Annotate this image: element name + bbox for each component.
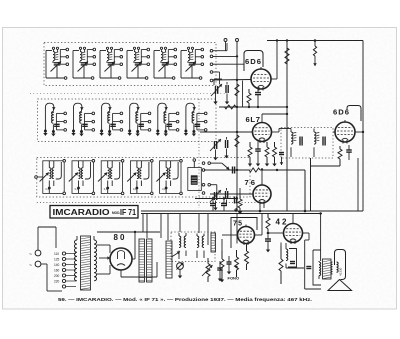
oscillator coil cell B6	[184, 103, 207, 136]
antenna arrow	[314, 41, 316, 47]
tube 76	[253, 185, 271, 203]
6L7 R3	[274, 142, 276, 147]
right frame wire	[357, 158, 359, 211]
tube 6L7	[253, 123, 272, 142]
IF coil cell C1	[40, 160, 66, 195]
76 cathode leads	[259, 204, 261, 212]
oscillator coil cell B1	[43, 103, 66, 136]
6L7 R2	[266, 142, 268, 147]
terminal strip pins	[210, 43, 244, 84]
svg-text:59. — IMCARADIO. — Mod. «: 59. — IMCARADIO. — Mod. « IF 71 ». — Pro…	[58, 297, 312, 302]
chassis line lower	[141, 213, 322, 215]
speaker cone	[328, 280, 352, 291]
svg-text:IF 71: IF 71	[120, 208, 137, 217]
phono transformer (dashed box)	[171, 232, 215, 262]
6L7 C1	[255, 148, 261, 150]
oscillator coil cell B4	[128, 103, 151, 136]
heater wire	[121, 276, 157, 278]
screen resistor h	[225, 105, 237, 109]
phono pickup arrow	[172, 252, 181, 258]
antenna coil cell A5	[154, 47, 177, 79]
6L7 plate wire	[272, 131, 280, 133]
trimmer group 1	[211, 79, 229, 104]
76 grid wire	[210, 193, 253, 195]
80 anode wires	[97, 244, 110, 246]
speaker yoke	[335, 250, 346, 280]
bus resistor 1	[235, 84, 239, 96]
antenna coil cell A6	[181, 47, 204, 79]
phono jack	[177, 263, 184, 270]
6D6b grid wire	[333, 131, 335, 133]
svg-text:140: 140	[54, 263, 60, 267]
antenna coil cell A2	[73, 47, 96, 79]
svg-text:~: ~	[29, 263, 32, 269]
svg-text:125: 125	[54, 257, 60, 261]
tube 6D6a	[251, 69, 271, 89]
row3 dashed box	[37, 158, 250, 198]
chassis line upper	[141, 210, 363, 212]
rectifier tube 80	[110, 248, 132, 270]
logo box	[50, 206, 138, 219]
42 plate drop	[308, 233, 310, 240]
bus wire v237	[236, 42, 238, 212]
42 cathode coil	[286, 249, 288, 261]
svg-text:~: ~	[29, 252, 32, 258]
mid drop wires	[198, 214, 200, 234]
42 bottom wire	[286, 267, 304, 269]
6D6b cathode cap	[346, 149, 352, 151]
svg-text:200: 200	[54, 274, 60, 278]
tube box 6D6a	[244, 51, 263, 72]
bypass cap D1	[210, 203, 216, 205]
42 grid resistor	[280, 246, 282, 259]
6D6a cathode cap	[255, 92, 261, 94]
6L7 grid wire	[200, 131, 253, 133]
oscillator coil cell B5	[156, 103, 179, 136]
oscillator coil cell B3	[99, 103, 122, 136]
volume pot	[207, 258, 209, 264]
speaker loop	[313, 250, 321, 285]
6L7 bottom resistor h	[204, 169, 249, 171]
antenna coil cell A1	[46, 47, 69, 79]
plug wires	[37, 227, 39, 250]
bus bypass cap	[234, 197, 236, 204]
fono cap	[217, 267, 223, 269]
label 75 box	[231, 218, 257, 249]
power transformer T1	[74, 236, 96, 290]
output transformer core	[323, 259, 332, 279]
42 cathode loop	[288, 249, 297, 268]
IF coil cell C4	[127, 160, 153, 195]
antenna coil cell A4	[127, 47, 150, 79]
speaker feed wires	[304, 240, 306, 289]
75 mid resistor	[236, 250, 238, 257]
filter can 1	[139, 239, 145, 282]
trimmer group 3	[210, 188, 228, 210]
mid small cap	[227, 261, 232, 263]
svg-text:75: 75	[233, 221, 242, 228]
42 cathode cap	[290, 261, 295, 263]
IF coil cell C6	[188, 159, 230, 195]
76 grid resistor	[239, 197, 241, 199]
svg-text:42: 42	[276, 218, 288, 227]
top bus wire	[267, 40, 363, 42]
psu arrow	[99, 257, 110, 259]
extra dotted row	[30, 93, 225, 95]
75 input can	[211, 233, 216, 252]
42 grid feed resistor	[267, 214, 269, 218]
svg-text:220: 220	[54, 279, 60, 283]
75 cathode resistor2	[246, 245, 248, 251]
svg-text:110: 110	[54, 252, 59, 256]
6D6a bottom wire	[219, 106, 287, 108]
IF coil cell C2	[69, 160, 95, 195]
row3 left pin	[35, 176, 38, 179]
42 left cap	[265, 238, 271, 240]
bus resistor 2	[235, 135, 239, 147]
resistor R-ant	[285, 48, 289, 64]
6L7 R1	[249, 142, 251, 147]
trimmer group 2	[210, 137, 229, 160]
tube 6D6b	[335, 122, 355, 142]
voltage selector taps	[54, 252, 76, 288]
phono jack lead	[179, 269, 181, 274]
bus wire v363	[362, 41, 364, 212]
output transformer primary	[319, 262, 321, 276]
svg-text:FONO: FONO	[228, 276, 240, 281]
row2 dashed box	[38, 99, 217, 142]
antenna terminal pins	[224, 39, 227, 42]
tube 75	[238, 227, 255, 244]
antenna coil cell A3	[100, 47, 123, 79]
tube box 6D6b	[347, 106, 361, 122]
75 grid wires	[222, 234, 238, 236]
speaker mid cap	[306, 266, 311, 268]
tube 42	[284, 224, 303, 243]
42 grid wires	[268, 232, 284, 234]
filter can 2	[147, 239, 153, 282]
svg-text:6D6: 6D6	[245, 57, 261, 66]
80 top wires	[97, 231, 160, 233]
b+ top wire	[195, 198, 237, 200]
76 top wire	[261, 170, 263, 186]
svg-text:160: 160	[54, 268, 60, 272]
svg-text:41330: 41330	[339, 267, 343, 276]
oscillator coil cell B2	[71, 103, 94, 136]
6D6a grid wire	[213, 79, 251, 82]
switch shaft dotted	[198, 99, 200, 208]
svg-text:80: 80	[114, 233, 126, 242]
row3 lower dotted line	[37, 202, 265, 204]
6D6a cathode resistor	[248, 89, 250, 93]
IF coil cell C5	[156, 160, 182, 195]
IF coil cell C3	[98, 160, 124, 195]
filter can 3	[166, 241, 172, 278]
avc drop wires	[304, 170, 306, 211]
row1 dashed box	[44, 43, 216, 86]
speaker field coil	[337, 262, 339, 272]
6D6b cathode resistor	[339, 146, 341, 149]
svg-text:IMCARADIO: IMCARADIO	[53, 208, 110, 217]
mains plug	[35, 250, 41, 256]
left drop wires	[142, 214, 144, 233]
bus wire v287	[286, 41, 288, 212]
75 left resistor	[221, 251, 223, 259]
avc line cap	[232, 167, 234, 174]
bypass cap D2	[221, 203, 227, 205]
6D6a plate wire	[271, 78, 277, 80]
bus dots	[236, 79, 238, 81]
output transformer secondary	[331, 262, 333, 274]
IF transformer T3 (dashed box)	[279, 128, 333, 166]
